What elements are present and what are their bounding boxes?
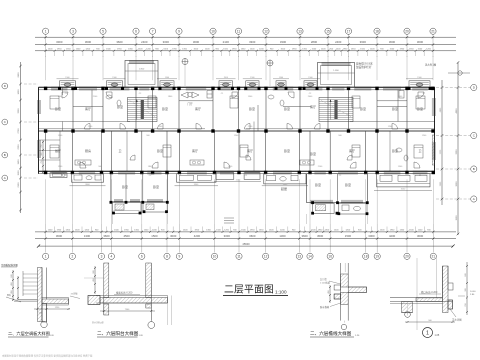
svg-text:3000: 3000 xyxy=(417,234,424,238)
svg-text:1.800: 1.800 xyxy=(139,69,145,71)
svg-text:1500: 1500 xyxy=(417,77,421,79)
svg-text:3: 3 xyxy=(72,29,74,33)
north exterior wall xyxy=(39,87,435,90)
svg-text:1500: 1500 xyxy=(308,77,312,79)
svg-text:450: 450 xyxy=(328,290,330,293)
svg-text:13: 13 xyxy=(298,255,302,259)
beds and furniture xyxy=(50,95,425,165)
svg-text:A: A xyxy=(473,197,475,201)
svg-text:卧室: 卧室 xyxy=(417,106,423,111)
svg-text:3000: 3000 xyxy=(224,234,231,238)
middle spine wall xyxy=(39,129,435,131)
svg-text:3600: 3600 xyxy=(56,234,63,238)
svg-text:1600: 1600 xyxy=(18,89,20,95)
svg-text:17: 17 xyxy=(347,29,351,33)
upper interior wall line left xyxy=(39,121,131,123)
interior door swing arcs xyxy=(62,92,424,168)
svg-text:起居: 起居 xyxy=(281,186,287,191)
svg-text:客厅: 客厅 xyxy=(247,148,253,153)
svg-text:加设防护栏杆: 加设防护栏杆 xyxy=(356,65,372,69)
windows in north wall xyxy=(51,87,428,90)
entry vestibule right-mid xyxy=(377,91,407,101)
svg-text:3600: 3600 xyxy=(301,234,308,238)
svg-text:12: 12 xyxy=(264,29,268,33)
svg-text:卧室: 卧室 xyxy=(392,106,398,111)
bottom dimension band xyxy=(35,224,456,253)
svg-text:6: 6 xyxy=(135,29,137,33)
right dimension band xyxy=(436,61,470,235)
svg-text:1500: 1500 xyxy=(18,170,20,176)
south bathroom block left unit xyxy=(70,174,106,186)
svg-text:泛水详图: 泛水详图 xyxy=(452,318,462,322)
interior partition walls lower xyxy=(46,131,407,171)
svg-text:1500: 1500 xyxy=(224,77,228,79)
inner bathroom partitions upper xyxy=(63,87,408,131)
svg-text:9: 9 xyxy=(179,255,181,259)
columns on middle wall xyxy=(44,129,435,132)
svg-text:5: 5 xyxy=(102,29,104,33)
svg-text:4500: 4500 xyxy=(317,234,324,238)
svg-text:卧室: 卧室 xyxy=(122,184,128,189)
top dimension band xyxy=(35,35,456,58)
svg-text:楼面标高-0.200: 楼面标高-0.200 xyxy=(116,291,133,295)
svg-text:卧室: 卧室 xyxy=(315,182,321,187)
svg-text:1950: 1950 xyxy=(18,159,20,165)
upper interior wall line right xyxy=(350,121,435,123)
svg-text:2100: 2100 xyxy=(223,40,230,44)
svg-text:300: 300 xyxy=(465,288,467,291)
svg-text:2400: 2400 xyxy=(141,40,148,44)
svg-text:1500: 1500 xyxy=(151,234,158,238)
svg-text:14.00: 14.00 xyxy=(470,291,476,293)
svg-text:卧室: 卧室 xyxy=(162,106,168,111)
svg-text:20: 20 xyxy=(405,29,409,33)
svg-text:卫: 卫 xyxy=(418,149,421,153)
svg-text:3000: 3000 xyxy=(193,40,200,44)
note text block xyxy=(356,62,373,70)
svg-text:600: 600 xyxy=(11,274,13,277)
svg-text:3600: 3600 xyxy=(103,234,110,238)
left inner dimension cluster xyxy=(41,140,44,174)
svg-text:卧室: 卧室 xyxy=(249,106,255,111)
south planter boxes center xyxy=(214,173,261,182)
staircase 1 xyxy=(128,98,158,122)
detail: AC condenser slab section xyxy=(1,263,80,328)
svg-text:A: A xyxy=(4,176,6,180)
svg-text:3000: 3000 xyxy=(368,234,375,238)
south terrace block A xyxy=(175,174,219,186)
detail: roof edge section xyxy=(390,258,476,330)
svg-text:卧室: 卧室 xyxy=(284,148,290,153)
svg-text:100: 100 xyxy=(39,313,42,315)
svg-text:4200: 4200 xyxy=(194,234,201,238)
svg-text:2: 2 xyxy=(72,255,74,259)
drawing title xyxy=(223,284,288,296)
svg-text:4500: 4500 xyxy=(123,234,130,238)
svg-text:卧室: 卧室 xyxy=(284,106,290,111)
svg-text:1500: 1500 xyxy=(250,77,254,79)
svg-text:1: 1 xyxy=(45,29,47,33)
south small AC slab left xyxy=(50,173,67,178)
svg-text:二层平面图: 二层平面图 xyxy=(224,284,274,296)
north bay windows xyxy=(58,81,432,90)
east exterior wall xyxy=(432,87,435,174)
svg-text:卧室: 卧室 xyxy=(310,151,316,156)
north facade sill dimension ticks xyxy=(57,77,434,79)
svg-text:1500: 1500 xyxy=(279,77,283,79)
svg-text:1500: 1500 xyxy=(345,234,352,238)
grid bubbles top xyxy=(43,28,437,34)
svg-text:2400: 2400 xyxy=(18,72,20,78)
svg-text:10: 10 xyxy=(213,255,217,259)
svg-text:3000: 3000 xyxy=(56,40,63,44)
windows in south wall xyxy=(52,171,428,174)
svg-text:卧室: 卧室 xyxy=(55,106,61,111)
label: eave detail xyxy=(310,330,360,337)
svg-text:16: 16 xyxy=(328,255,332,259)
svg-text:6: 6 xyxy=(141,255,143,259)
svg-text:8: 8 xyxy=(166,255,168,259)
svg-text:2700: 2700 xyxy=(18,128,20,134)
svg-text:21: 21 xyxy=(432,255,436,259)
south shallow balcony far right xyxy=(374,174,432,191)
svg-text:20: 20 xyxy=(405,255,409,259)
svg-text:1300: 1300 xyxy=(279,234,286,238)
svg-text:客厅: 客厅 xyxy=(310,104,316,109)
svg-text:3350: 3350 xyxy=(456,149,458,155)
svg-text:45600: 45600 xyxy=(242,242,250,246)
interior partition walls upper xyxy=(73,90,407,131)
west exterior wall xyxy=(38,87,41,174)
room name labels xyxy=(55,104,423,191)
svg-text:卧室: 卧室 xyxy=(360,106,366,111)
svg-text:900: 900 xyxy=(93,270,95,273)
svg-text:3300: 3300 xyxy=(249,40,256,44)
svg-text:1500: 1500 xyxy=(112,77,116,79)
svg-text:3000: 3000 xyxy=(170,234,177,238)
svg-text:客厅: 客厅 xyxy=(192,148,198,153)
svg-text:3: 3 xyxy=(101,255,103,259)
svg-text:450: 450 xyxy=(11,282,13,285)
staircase 2 xyxy=(319,98,353,122)
svg-text:3600: 3600 xyxy=(389,40,396,44)
svg-text:二、六层空调板大样图: 二、六层空调板大样图 xyxy=(8,330,50,337)
svg-text:卧室: 卧室 xyxy=(153,184,159,189)
svg-text:卧室: 卧室 xyxy=(117,104,123,109)
svg-text:19: 19 xyxy=(375,255,379,259)
svg-text:600: 600 xyxy=(465,273,467,276)
stair core north protrusion 1 xyxy=(125,61,158,88)
svg-text:1: 1 xyxy=(426,331,429,337)
svg-text:3000: 3000 xyxy=(163,40,170,44)
svg-text:18: 18 xyxy=(364,255,368,259)
svg-text:2250: 2250 xyxy=(18,144,20,150)
svg-text:2400: 2400 xyxy=(335,40,342,44)
svg-text:11: 11 xyxy=(237,29,241,33)
svg-text:卧室: 卧室 xyxy=(157,148,163,153)
south deep block right unit xyxy=(307,174,368,204)
svg-text:4: 4 xyxy=(111,255,113,259)
grid bubbles bottom xyxy=(43,253,437,259)
svg-text:B: B xyxy=(4,153,6,157)
svg-text:4200: 4200 xyxy=(389,234,396,238)
svg-text:3600: 3600 xyxy=(249,234,256,238)
left unit dining partitions xyxy=(39,140,61,160)
svg-text:1300: 1300 xyxy=(84,234,91,238)
label: AC slab detail xyxy=(8,330,55,337)
svg-text:14: 14 xyxy=(308,255,312,259)
svg-text:11: 11 xyxy=(237,255,241,259)
svg-text:1500: 1500 xyxy=(65,77,69,79)
svg-text:7: 7 xyxy=(152,29,154,33)
svg-text:1:25: 1:25 xyxy=(435,334,440,337)
columns at south block corners xyxy=(110,201,369,215)
label: balcony detail xyxy=(97,330,144,337)
grid axis stubs top xyxy=(46,56,433,80)
entrance mark center xyxy=(224,218,234,223)
svg-text:4800: 4800 xyxy=(456,108,458,114)
axis target symbol left xyxy=(182,59,188,87)
svg-text:1:100: 1:100 xyxy=(275,290,287,295)
svg-text:13: 13 xyxy=(298,29,302,33)
svg-text:450: 450 xyxy=(93,278,95,281)
entry vestibule middle xyxy=(179,91,213,107)
svg-text:3300: 3300 xyxy=(280,40,287,44)
south exterior wall xyxy=(39,171,435,173)
detail: balcony section xyxy=(84,263,172,328)
svg-text:2100: 2100 xyxy=(18,182,20,188)
svg-text:B: B xyxy=(473,167,475,171)
svg-text:3000: 3000 xyxy=(456,181,458,187)
svg-text:250: 250 xyxy=(465,303,467,306)
svg-text:二、六层檐线大样图: 二、六层檐线大样图 xyxy=(310,330,352,337)
svg-text:21: 21 xyxy=(431,29,435,33)
svg-text:卧室: 卧室 xyxy=(345,182,351,187)
axis target symbol right xyxy=(267,60,273,86)
svg-text:450: 450 xyxy=(11,290,13,293)
svg-text:3000: 3000 xyxy=(417,40,424,44)
svg-text:卧室: 卧室 xyxy=(392,148,398,153)
svg-text:客厅: 客厅 xyxy=(195,106,201,111)
row bubbles right (D C B A) xyxy=(471,84,477,202)
svg-text:15: 15 xyxy=(326,29,330,33)
svg-text:3300: 3300 xyxy=(18,108,20,114)
svg-text:空调板配筋详图: 空调板配筋详图 xyxy=(1,263,18,267)
svg-text:卫: 卫 xyxy=(118,149,121,153)
svg-text:檐口标高-0.200: 檐口标高-0.200 xyxy=(421,290,438,294)
svg-text:门厅: 门厅 xyxy=(187,102,193,106)
svg-text:3600: 3600 xyxy=(85,40,92,44)
svg-text:12: 12 xyxy=(264,255,268,259)
svg-text:9: 9 xyxy=(178,29,180,33)
right end datum mark xyxy=(425,63,470,76)
svg-text:2800: 2800 xyxy=(311,40,318,44)
balconies under right deep block xyxy=(313,203,367,214)
left dimension band xyxy=(18,62,38,213)
svg-text:1.800: 1.800 xyxy=(333,70,339,72)
svg-text:3600: 3600 xyxy=(360,40,367,44)
row bubbles left (D C B A) xyxy=(2,83,8,181)
label: detail number 1 xyxy=(423,328,440,338)
svg-text:1500: 1500 xyxy=(456,215,458,221)
columns on south wall xyxy=(44,171,435,174)
small inner dimension texts xyxy=(58,93,427,177)
svg-text:3600: 3600 xyxy=(116,40,123,44)
south deep block left unit xyxy=(111,174,167,203)
svg-text:1: 1 xyxy=(45,255,47,259)
svg-text:本图素材来源于网络收集整理 仅供学习参考使用 更多精品图纸请: 本图素材来源于网络收集整理 仅供学习参考使用 更多精品图纸请访问素材库 免费下载 xyxy=(2,354,93,358)
columns on north wall xyxy=(44,87,435,90)
svg-text:10: 10 xyxy=(211,29,215,33)
svg-text:二、六层阳台大样图: 二、六层阳台大样图 xyxy=(97,330,139,337)
balconies under left deep block xyxy=(112,202,167,213)
grid axis stubs bottom xyxy=(46,179,434,224)
svg-text:客厅: 客厅 xyxy=(85,106,91,111)
svg-text:餐厅: 餐厅 xyxy=(55,148,61,153)
svg-text:厨房: 厨房 xyxy=(85,148,91,153)
stair core north protrusion 2 xyxy=(318,63,355,88)
svg-text:客厅: 客厅 xyxy=(349,148,355,153)
south bathroom block right unit xyxy=(262,174,308,186)
detail: eave line section xyxy=(320,263,367,330)
svg-text:18: 18 xyxy=(375,29,379,33)
svg-text:1500: 1500 xyxy=(165,77,169,79)
svg-text:窗台低于0.9米: 窗台低于0.9米 xyxy=(356,62,373,66)
